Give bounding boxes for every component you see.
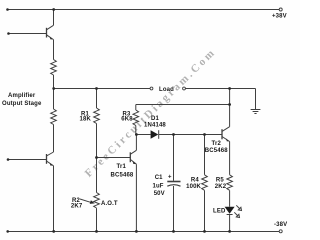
node bottom rail left terminal <box>6 230 9 233</box>
svg-text:1N4148: 1N4148 <box>144 122 166 128</box>
node load terminal left <box>150 87 153 90</box>
node bottom rail LED junction <box>228 230 231 233</box>
node bottom rail Tr1 junction <box>135 230 138 233</box>
wire load line left <box>54 88 151 90</box>
wire Q1 collector to rail <box>53 10 55 26</box>
wire R3 top line <box>136 104 230 106</box>
wire ground drop <box>255 89 257 110</box>
node Tr2 collector R3 junction <box>228 103 231 106</box>
node bottom rail Q2 junction <box>52 230 55 233</box>
wire Tr2 collector up <box>229 89 231 127</box>
diode D1 <box>151 130 159 139</box>
wire Q1 base input <box>9 33 47 35</box>
wire node to R2 <box>96 158 98 193</box>
svg-text:18K: 18K <box>80 117 92 123</box>
svg-text:2K2: 2K2 <box>215 184 227 190</box>
svg-text:100K: 100K <box>186 184 201 190</box>
svg-text:Output Stage: Output Stage <box>2 101 42 107</box>
resistor RE (unlabeled, Q1 emitter) <box>51 60 57 76</box>
svg-text:BC5468: BC5468 <box>205 148 228 154</box>
wire Tr1 emitter down <box>135 164 137 231</box>
svg-text:R4: R4 <box>191 177 199 183</box>
wire Q2 base input <box>8 159 47 161</box>
node Tr2 collector load junction <box>228 87 231 90</box>
node load terminal right <box>183 87 186 90</box>
wire node to Tr1 base <box>97 157 131 159</box>
wire diode line <box>136 134 150 136</box>
svg-text:50V: 50V <box>154 191 165 197</box>
wire bottom rail -38V <box>8 231 280 233</box>
node C1 top junction <box>172 133 175 136</box>
svg-text:C1: C1 <box>155 175 163 181</box>
svg-text:+38V: +38V <box>272 14 287 20</box>
transistor Q1 emitter arrow <box>49 36 53 39</box>
svg-text:R5: R5 <box>216 177 224 183</box>
node +38V terminal circle <box>279 8 282 11</box>
node Tr1 collector junction <box>135 133 138 136</box>
R2 wiper arrowhead <box>90 200 95 204</box>
ground <box>251 109 261 111</box>
resistor R4 <box>202 175 208 190</box>
svg-text:+: + <box>168 175 172 181</box>
LED light arrows <box>236 205 240 209</box>
svg-text:LED: LED <box>213 209 226 215</box>
wire R1 top <box>96 89 98 109</box>
node R1 bottom junction <box>95 156 98 159</box>
wire Tr1 collector up <box>135 135 137 151</box>
wire load line right <box>186 88 256 90</box>
transistor Tr1 emitter arrow <box>132 161 136 164</box>
node bottom rail C1 junction <box>172 230 175 233</box>
transistor Q2 <box>46 154 48 164</box>
svg-text:1uF: 1uF <box>153 184 164 190</box>
node Q1 base terminal <box>7 32 10 35</box>
resistor R1 <box>94 108 100 124</box>
transistor Tr1 <box>129 152 131 162</box>
wire to Q2 collector <box>53 125 55 153</box>
R2 label leader <box>80 199 91 202</box>
svg-text:6K8: 6K8 <box>121 117 133 123</box>
wire Q2 emitter to bottom rail <box>53 166 55 232</box>
node load junction <box>52 87 55 90</box>
node Q1 collector junction <box>52 8 55 11</box>
wire R4 top <box>204 135 206 175</box>
wire Tr2 emitter to R5 <box>229 142 231 175</box>
resistor R2 pot <box>94 193 100 208</box>
svg-text:-38V: -38V <box>274 222 287 228</box>
svg-text:2K7: 2K7 <box>71 203 83 209</box>
svg-text:Tr1: Tr1 <box>117 164 127 170</box>
wire Q1 emitter down <box>53 40 55 60</box>
node bottom rail R4 junction <box>203 230 206 233</box>
transistor Tr2 <box>221 129 223 139</box>
resistor RC (unlabeled, below load node) <box>53 89 55 110</box>
resistor R5 <box>227 175 233 190</box>
svg-text:BC5468: BC5468 <box>111 172 134 178</box>
svg-text:Amplifier: Amplifier <box>8 93 36 99</box>
node R1 top junction <box>95 87 98 90</box>
svg-text:D1: D1 <box>151 116 159 122</box>
wire top rail +38V <box>8 9 281 11</box>
wire R1 bottom to node <box>96 124 98 158</box>
LED D2 <box>225 207 235 214</box>
node R4 top junction <box>203 133 206 136</box>
wire to load node <box>53 75 55 89</box>
node Q2 base terminal <box>7 158 10 161</box>
transistor Q2 emitter arrow <box>49 163 53 166</box>
transistor Q1 <box>46 28 48 38</box>
svg-text:Tr2: Tr2 <box>212 141 222 147</box>
node top rail left terminal <box>6 8 9 11</box>
transistor Tr2 emitter arrow <box>225 138 229 141</box>
node bottom rail R2 junction <box>95 230 98 233</box>
wire C1 top <box>173 135 175 181</box>
svg-text:A.O.T: A.O.T <box>101 201 118 207</box>
svg-text:Load: Load <box>159 87 174 93</box>
resistor R3 <box>135 105 137 111</box>
capacitor C1 <box>167 181 180 183</box>
node -38V terminal circle <box>279 230 282 233</box>
